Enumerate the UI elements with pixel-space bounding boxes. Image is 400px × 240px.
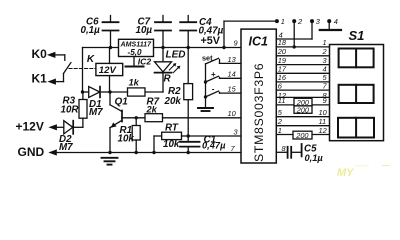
resistor RT 10k thermistor [154, 123, 188, 153]
bus row 18-1 [276, 38, 329, 47]
node R1 GND [135, 151, 138, 154]
wire GND rail [56, 152, 242, 154]
bus row 5-10 [276, 108, 329, 117]
node jumper 2 [292, 17, 302, 49]
bus row 2-11 [276, 117, 329, 126]
svg-text:2: 2 [322, 47, 327, 56]
node jumper 4 and ground [320, 17, 341, 30]
svg-text:18: 18 [278, 38, 287, 47]
terminal K0 [32, 47, 65, 61]
svg-text:10: 10 [319, 108, 328, 117]
svg-text:2: 2 [277, 117, 282, 126]
wire +12V rail left segment [83, 47, 119, 49]
svg-text:K: K [87, 54, 95, 65]
terminal +12V [16, 119, 64, 133]
connector S1 display [330, 28, 384, 141]
svg-text:2: 2 [297, 17, 302, 26]
terminal K1 [32, 72, 64, 86]
wire +5V rail right of regulator to IC pin 9 [154, 47, 242, 49]
bus row 1-12 [276, 126, 329, 135]
svg-text:0,1µ: 0,1µ [305, 153, 324, 163]
resistor 200 row 12 [293, 131, 312, 140]
svg-text:K1: K1 [32, 72, 48, 86]
wire divider to IC pin 3 [188, 135, 241, 137]
svg-text:M7: M7 [89, 107, 103, 118]
svg-text:3: 3 [323, 56, 328, 65]
svg-text:——: —— [354, 163, 370, 170]
svg-text:13: 13 [228, 55, 237, 64]
svg-text:10R: 10R [61, 104, 80, 115]
svg-text:4: 4 [334, 17, 338, 26]
bus row 17-4 [276, 65, 329, 74]
pushbutton minus [204, 85, 241, 99]
svg-text:—: — [381, 161, 391, 170]
svg-text:0,47µ: 0,47µ [202, 141, 226, 151]
svg-text:1: 1 [323, 38, 327, 47]
svg-text:IC2: IC2 [138, 56, 152, 66]
svg-text:+12V: +12V [16, 119, 44, 133]
bus row 16-5 [276, 73, 329, 82]
diode D1 M7 [83, 87, 111, 119]
svg-text:5: 5 [278, 108, 283, 117]
watermark [337, 161, 391, 179]
resistor R 1k [110, 73, 172, 96]
IC U1 STM8S003F3P6 [241, 29, 276, 163]
svg-text:1: 1 [278, 126, 282, 135]
bus row 12-8 [276, 91, 329, 100]
capacitor C7 [136, 16, 172, 48]
svg-text:10k: 10k [163, 139, 180, 150]
svg-text:1: 1 [281, 17, 285, 26]
resistor R7 2k [145, 97, 241, 122]
svg-text:6: 6 [278, 81, 283, 90]
svg-text:10µ: 10µ [136, 25, 153, 36]
svg-text:GND: GND [18, 145, 45, 159]
svg-text:STM8S003F3P6: STM8S003F3P6 [252, 63, 266, 162]
display digit 1 [339, 49, 374, 68]
svg-text:+5V: +5V [201, 35, 221, 47]
resistor R2 20k [164, 48, 193, 137]
svg-text:11: 11 [278, 96, 286, 105]
svg-text:7: 7 [323, 81, 328, 90]
terminal GND [18, 145, 57, 159]
svg-text:12V: 12V [99, 65, 118, 76]
wire left +12V rail vertical [82, 48, 84, 93]
regulator U IC2 AMS1117-5.0 [119, 39, 154, 66]
svg-text:11: 11 [319, 117, 327, 126]
bus row 6-7 [276, 81, 329, 90]
node Q1 base R1 [135, 116, 138, 119]
svg-text:200: 200 [295, 131, 308, 140]
svg-text:19: 19 [278, 56, 286, 65]
svg-text:3: 3 [234, 127, 239, 136]
svg-text:Q1: Q1 [115, 97, 129, 108]
node relay-D1-Q1 collector [108, 90, 111, 93]
node rail-C4-R2 [187, 46, 190, 49]
node jumper 1 [275, 17, 285, 26]
svg-text:R: R [164, 73, 172, 84]
pushbutton set [202, 53, 241, 64]
capacitor C1 0.47u [180, 134, 226, 152]
svg-text:MY: MY [337, 167, 355, 179]
svg-text:15: 15 [228, 85, 237, 94]
resistor 200 row 9 [294, 105, 312, 114]
node rail-C7-LED [161, 46, 164, 49]
svg-text:IC1: IC1 [249, 35, 269, 49]
transistor Q1 [110, 92, 145, 153]
node C1 GND [187, 151, 190, 154]
svg-text:200: 200 [296, 105, 309, 114]
svg-text:10k: 10k [118, 134, 135, 145]
node rail-riser [222, 46, 225, 49]
ground symbol Q1 emitter [102, 158, 118, 165]
capacitor C5 0.1u [288, 144, 324, 163]
bus row 19-3 [276, 56, 329, 65]
svg-text:LED: LED [166, 50, 186, 61]
wire IC pin 4 to jumper 3 [276, 30, 312, 39]
svg-text:1k: 1k [129, 77, 140, 87]
svg-text:14: 14 [228, 70, 236, 79]
wire IC pin 8 [276, 144, 287, 153]
resistor R1 10k [118, 118, 141, 153]
svg-text:9: 9 [234, 38, 238, 47]
svg-text:RT: RT [165, 123, 179, 134]
svg-text:9: 9 [323, 96, 327, 105]
svg-text:M7: M7 [59, 142, 73, 153]
svg-text:20: 20 [277, 47, 287, 56]
node RT GND [152, 151, 155, 154]
capacitor C6 [81, 16, 119, 48]
relay coil K 12V [87, 48, 123, 93]
diode D2 M7 [59, 121, 83, 153]
node divider junction [187, 134, 190, 137]
svg-text:0,1µ: 0,1µ [81, 25, 101, 36]
wire riser to jumper row [224, 21, 277, 47]
wire button common [205, 64, 207, 108]
bus row 11-9 [276, 96, 329, 105]
svg-text:3: 3 [316, 17, 321, 26]
svg-text:2k: 2k [146, 105, 158, 115]
pushbutton plus [204, 70, 241, 84]
svg-text:S1: S1 [349, 28, 365, 43]
display digit 2 [339, 85, 374, 103]
switch K contact [64, 63, 96, 74]
node jumper 3 [310, 17, 321, 39]
resistor 200 row 8 [294, 98, 312, 107]
node Q1 emitter GND [108, 151, 111, 154]
LED [145, 48, 186, 93]
svg-text:8: 8 [282, 144, 287, 153]
svg-text:K0: K0 [32, 47, 48, 61]
svg-text:7: 7 [231, 144, 236, 153]
svg-text:12: 12 [319, 126, 327, 135]
resistor R3 10R [61, 92, 88, 127]
node D1 anode [81, 90, 84, 93]
node rail-C6 [109, 46, 112, 49]
svg-text:20k: 20k [164, 96, 182, 107]
capacitor C4 [180, 16, 223, 48]
svg-text:10: 10 [228, 109, 237, 118]
svg-text:-: - [212, 85, 215, 94]
bus row 20-2 [276, 47, 329, 56]
display digit 3 [338, 118, 374, 138]
ground symbol buttons [198, 108, 213, 111]
